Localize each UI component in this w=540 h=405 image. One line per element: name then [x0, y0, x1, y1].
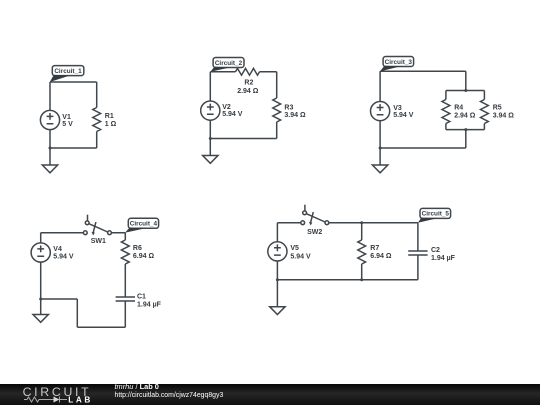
svg-text:V2: V2	[222, 104, 231, 111]
svg-text:V1: V1	[62, 114, 71, 121]
svg-text:3.94 Ω: 3.94 Ω	[284, 112, 306, 119]
svg-text:R7: R7	[370, 245, 379, 252]
svg-text:R3: R3	[284, 105, 293, 112]
svg-text:R2: R2	[244, 80, 253, 87]
svg-text:5.94 V: 5.94 V	[53, 253, 74, 260]
svg-text:SW1: SW1	[91, 238, 106, 245]
svg-text:R1: R1	[105, 113, 114, 120]
svg-text:R4: R4	[454, 104, 463, 111]
svg-text:V5: V5	[290, 245, 299, 252]
svg-text:R5: R5	[493, 104, 502, 111]
svg-text:SW2: SW2	[307, 229, 322, 236]
svg-text:5.94 V: 5.94 V	[290, 253, 311, 260]
svg-text:V3: V3	[393, 105, 402, 112]
svg-text:1 Ω: 1 Ω	[105, 121, 117, 128]
svg-text:6.94 Ω: 6.94 Ω	[133, 253, 155, 260]
svg-text:LAB: LAB	[68, 395, 93, 404]
svg-text:6.94 Ω: 6.94 Ω	[370, 253, 392, 260]
svg-text:Circuit_2: Circuit_2	[215, 60, 243, 67]
svg-text:R6: R6	[133, 245, 142, 252]
svg-text:2.94 Ω: 2.94 Ω	[237, 88, 259, 95]
svg-text:V4: V4	[53, 246, 62, 253]
svg-text:C1: C1	[137, 294, 146, 301]
svg-text:1.94 µF: 1.94 µF	[137, 302, 162, 309]
svg-text:C2: C2	[431, 247, 440, 254]
svg-text:Circuit_1: Circuit_1	[54, 68, 82, 75]
svg-text:1.94 µF: 1.94 µF	[431, 255, 456, 262]
svg-text:Circuit_3: Circuit_3	[385, 59, 413, 66]
svg-text:Circuit_5: Circuit_5	[422, 211, 450, 218]
svg-text:2.94 Ω: 2.94 Ω	[454, 113, 476, 120]
svg-text:3.94 Ω: 3.94 Ω	[493, 113, 515, 120]
svg-text:5.94 V: 5.94 V	[393, 112, 414, 119]
svg-text:5 V: 5 V	[62, 121, 73, 128]
svg-text:Circuit_4: Circuit_4	[130, 221, 158, 228]
svg-text:5.94 V: 5.94 V	[222, 111, 243, 118]
